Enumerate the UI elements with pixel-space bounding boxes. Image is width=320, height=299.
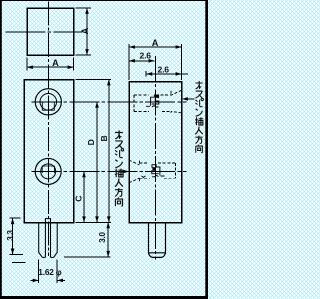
dim D line (96, 102, 98, 223)
top socket entry funnel (hidden) (171, 90, 182, 113)
top hole inner circle (40, 94, 57, 111)
dim A (vertical, right of square): extension lines (76, 8, 92, 55)
horizontal centerline of top view (6, 31, 83, 33)
top hole horizontal centerline (shared with side view) (32, 101, 187, 103)
side view body outline (129, 82, 182, 223)
side view vertical centerline (154, 56, 156, 260)
dim 3.0 line (107, 222, 109, 256)
bottom socket contact spring (142, 165, 165, 178)
dim A (horizontal, below square): extension lines (27, 58, 74, 71)
dim A (top of side view): extension lines (129, 44, 182, 80)
svg-text:3.0: 3.0 (98, 231, 107, 242)
dim A line (129, 46, 182, 48)
dim A (horizontal) arrowheads (27, 65, 33, 69)
svg-text:B: B (99, 135, 109, 141)
bottom hole horizontal centerline (shared with side view) (32, 170, 187, 172)
svg-text:A: A (52, 58, 59, 68)
slot cap above bottom edge (45, 219, 50, 223)
svg-text:1.62 φ: 1.62 φ (38, 267, 61, 277)
bottom socket entry funnel (hidden) (129, 160, 140, 183)
right prong outer edge + chamfer + tip (51, 222, 58, 257)
top socket hidden cavity lines (134, 95, 171, 112)
side view bottom pin (149, 223, 166, 258)
dim 3.3 line (12, 218, 14, 254)
dim C line (83, 171, 85, 222)
dim A (vertical) line (86, 8, 88, 55)
extension lines (9, 218, 25, 262)
bottom hole contact detail (42, 166, 54, 173)
front view body outline (24, 80, 74, 223)
right text arrow (points left at top socket) (184, 98, 195, 100)
svg-text:3.3: 3.3 (6, 229, 15, 240)
svg-text:C: C (73, 196, 83, 202)
vertical centerline (main axis, through all views) (47, 2, 49, 257)
extension line at front body bottom edge (for C,D,B and 3.0) (76, 221, 112, 223)
dim 2.6 (right half) line with tick (146, 71, 188, 76)
top hole contact detail (42, 102, 54, 110)
right vertical text: オスピン挿入方向 (195, 81, 203, 153)
left prong outer edge + chamfer + tip (39, 222, 46, 257)
page background (body CSS provides hatch) (0, 0, 208, 299)
middle vertical text: オスピン挿入方向 (115, 130, 124, 206)
extension lines (39, 259, 58, 283)
top socket contact spring (146, 95, 159, 107)
svg-text:2.6: 2.6 (158, 64, 170, 74)
dim B line (108, 80, 110, 223)
svg-text:D: D (86, 139, 96, 145)
svg-text:A: A (152, 38, 159, 48)
bottom hole outer circle (35, 158, 61, 184)
bottom socket hidden cavity lines (140, 163, 176, 178)
top view body outline (27, 8, 74, 55)
svg-text:A: A (80, 27, 90, 34)
middle text arrow (points right at bottom socket) (120, 171, 128, 173)
dim A (vertical) arrowheads (85, 8, 89, 14)
bottom hole inner circle (41, 164, 56, 179)
dim 2.6 (left half) line (129, 60, 155, 62)
dim A (horizontal) line (27, 66, 74, 68)
dim line with inward arrows (31, 279, 66, 281)
svg-text:2.6: 2.6 (140, 51, 152, 61)
top hole outer circle (35, 89, 61, 115)
extension line at front body top edge (for B) (76, 79, 112, 81)
